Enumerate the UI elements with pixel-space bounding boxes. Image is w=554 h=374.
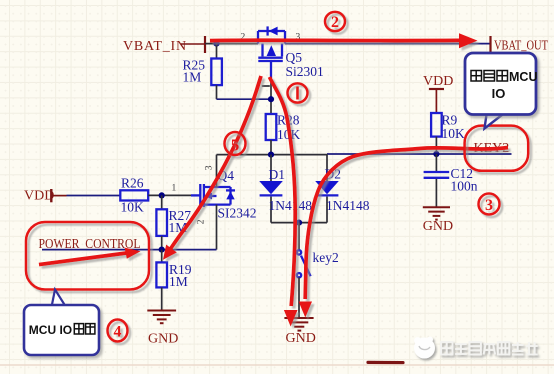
svg-text:GND: GND xyxy=(423,219,453,234)
resistor R25 xyxy=(211,44,222,100)
svg-text:key2: key2 xyxy=(313,250,339,265)
ground center xyxy=(284,318,313,331)
wire bottom rail D1-D2 xyxy=(271,222,327,224)
svg-text:4: 4 xyxy=(114,324,122,341)
svg-text:1N4148: 1N4148 xyxy=(269,198,313,213)
port VBAT_OUT xyxy=(491,36,549,53)
svg-text:R26: R26 xyxy=(121,175,144,190)
node junction gate/R25/R28 xyxy=(268,96,274,102)
resistor R26 xyxy=(120,190,148,200)
wire KEY2 net xyxy=(327,153,512,155)
diode D1 xyxy=(259,155,283,223)
svg-text:MCU IO: MCU IO xyxy=(29,323,72,337)
node junction R26/R27 xyxy=(159,192,165,198)
power VDD right xyxy=(423,74,453,113)
wire VBAT_IN to Q5 pin2 xyxy=(205,43,258,45)
wire R26 to Q4 gate xyxy=(148,194,191,196)
diode D2 xyxy=(315,154,339,223)
annotation arrow to power control node xyxy=(39,248,141,265)
svg-text:5: 5 xyxy=(231,136,240,155)
svg-text:VDD: VDD xyxy=(24,189,54,204)
svg-text:3: 3 xyxy=(205,165,215,170)
svg-text:D1: D1 xyxy=(269,167,286,182)
gate stub tick xyxy=(262,85,270,87)
svg-text:VBAT_OUT: VBAT_OUT xyxy=(494,38,548,53)
svg-text:3: 3 xyxy=(485,197,493,214)
ground under C12 xyxy=(423,207,450,219)
transistor Q4 (N-MOSFET) xyxy=(200,184,235,207)
svg-text:VDD: VDD xyxy=(423,74,453,89)
svg-text:GND: GND xyxy=(148,332,178,347)
wire Q4 drain up to rail xyxy=(216,155,218,187)
resistor R28 xyxy=(266,114,277,155)
annotation circled 1 xyxy=(288,83,308,102)
wire Q5 pin3 to VBAT_OUT xyxy=(285,43,490,45)
node junction key2 xyxy=(296,220,302,226)
resistor R27 xyxy=(156,195,167,249)
wire VDD to R26 xyxy=(67,195,121,197)
svg-text:GND: GND xyxy=(286,331,316,346)
annotation curve 1 (to GND) xyxy=(270,77,298,327)
wire R25 bottom to Q5 gate node xyxy=(217,98,272,100)
capacitor C12 xyxy=(424,154,450,207)
callout box: MCU IO output xyxy=(24,290,99,356)
svg-text:10K: 10K xyxy=(442,126,466,141)
svg-text:1: 1 xyxy=(172,183,177,193)
node junction R9/C12/KEY2 xyxy=(433,151,439,157)
svg-text:SI2342: SI2342 xyxy=(218,206,257,221)
svg-text:VBAT_IN: VBAT_IN xyxy=(123,39,187,54)
annotation circled 5 xyxy=(225,132,246,155)
svg-text:100n: 100n xyxy=(451,179,478,194)
annotation curve 3 (KEY2 to GND) xyxy=(299,148,508,318)
switch key2 xyxy=(297,223,311,317)
node junction R28/D1 on rail xyxy=(268,152,274,158)
annotation circled 2 xyxy=(325,12,345,31)
svg-text:1M: 1M xyxy=(183,69,202,84)
ground under R19 xyxy=(147,311,176,324)
svg-text:MCU: MCU xyxy=(509,70,537,84)
wire Q5 gate down xyxy=(270,78,272,114)
sheet border bottom xyxy=(368,361,403,364)
port VDD left xyxy=(24,189,67,204)
node junction at R25 top xyxy=(213,41,219,47)
watermark text xyxy=(441,342,538,355)
annotation box POWER_CONTROL xyxy=(26,222,149,290)
svg-text:10K: 10K xyxy=(121,200,145,215)
resistor R19 xyxy=(156,250,167,310)
svg-text:Si2301: Si2301 xyxy=(286,64,324,79)
watermark logo xyxy=(414,337,435,359)
pin of Q4 gate xyxy=(191,194,200,196)
annotation curve 5 (to R19 node) xyxy=(163,76,261,260)
svg-text:1N4148: 1N4148 xyxy=(326,198,370,213)
svg-text:Q5: Q5 xyxy=(286,50,303,65)
callout bubble: connect to MCU IO xyxy=(465,53,537,129)
svg-text:2: 2 xyxy=(197,219,207,224)
annotation arrow 2 (VBAT flow) xyxy=(210,33,478,48)
svg-text:IO: IO xyxy=(492,86,506,101)
transistor Q5 (P-MOSFET) xyxy=(258,26,285,78)
svg-text:1M: 1M xyxy=(169,274,188,289)
annotation ellipse around KEY2 xyxy=(465,126,529,171)
wire Q4 source down xyxy=(216,205,218,250)
node junction R27/R19 xyxy=(159,247,165,253)
svg-text:2: 2 xyxy=(331,14,339,31)
wire POWER_CONTROL xyxy=(42,249,217,251)
wire mid rail xyxy=(217,154,328,156)
port VBAT_IN xyxy=(123,36,206,54)
annotation circled 3 xyxy=(479,194,500,215)
annotation circled 4 xyxy=(108,320,128,342)
resistor R9 xyxy=(431,113,442,154)
